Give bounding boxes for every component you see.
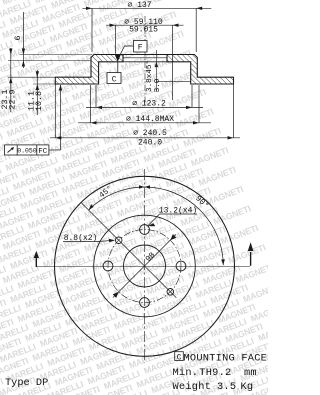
svg-text:MOUNTING FACE: MOUNTING FACE	[184, 352, 268, 364]
svg-text:Weight: Weight	[173, 381, 212, 393]
svg-text:C: C	[112, 76, 117, 85]
datum C (mounting face)	[107, 55, 121, 84]
svg-text:Min.: Min.	[173, 367, 199, 379]
svg-text:8.8(x2): 8.8(x2)	[64, 234, 98, 243]
dim 23.1/22.9 (overall height)	[8, 48, 55, 112]
svg-text:22.9: 22.9	[9, 90, 18, 110]
dim ⌀59.110/59.015	[106, 24, 184, 101]
dim ⌀123.2	[86, 85, 203, 109]
svg-text:240.0: 240.0	[138, 139, 162, 148]
svg-text:13.2(x4): 13.2(x4)	[159, 207, 197, 216]
45deg angle arc	[89, 185, 145, 210]
svg-text:⌀ 240.5: ⌀ 240.5	[133, 129, 167, 138]
svg-text:0.050: 0.050	[17, 147, 37, 154]
svg-text:59.015: 59.015	[129, 26, 158, 35]
dim 11.1/10.8 (friction thickness)	[33, 70, 55, 115]
svg-text:F: F	[138, 44, 143, 53]
svg-text:TH9.2: TH9.2	[199, 367, 231, 379]
8.8(x2) label leader	[63, 239, 115, 242]
bore far-side lines across the gap	[123, 54, 167, 56]
13.2(x4) label leader	[148, 214, 197, 227]
dim ⌀144.8MAX	[78, 85, 211, 125]
runout tolerance frame FC	[5, 85, 63, 156]
svg-text:Type DP: Type DP	[5, 377, 48, 389]
svg-text:C: C	[177, 354, 182, 363]
bolt holes ⌀13.2 x4	[140, 225, 150, 235]
NE-SW diagonal: bolt circle dimension ⌀98	[113, 234, 177, 298]
dim ⌀137	[82, 7, 211, 52]
bore circle ⌀59	[124, 245, 166, 287]
datum F (bore)	[121, 41, 148, 55]
dim ⌀240.5/240.0	[50, 84, 240, 140]
svg-text:mm: mm	[244, 367, 257, 379]
dim 6 (hat plate thickness)	[8, 12, 92, 68]
section view: disc body left half (hatched top-hat profile)	[55, 55, 123, 85]
svg-text:⌀ 144.8MAX: ⌀ 144.8MAX	[126, 115, 174, 124]
svg-text:⌀ 123.2: ⌀ 123.2	[132, 100, 166, 109]
small holes ⌀8.8 x2	[115, 237, 122, 244]
outer circle ⌀240	[55, 176, 235, 356]
drawing group	[5, 7, 254, 363]
horizontal cutting plane line	[36, 266, 250, 268]
svg-text:3.0: 3.0	[154, 78, 162, 92]
cutting plane arrows	[34, 242, 254, 267]
section centerline	[144, 16, 146, 103]
NW-SE diagonal centerline through small holes	[81, 203, 176, 298]
bottom right block	[173, 352, 268, 393]
svg-text:Kg: Kg	[241, 381, 254, 393]
chamfer 3.8x45 / 3.0 leaders	[155, 50, 191, 92]
svg-text:FC: FC	[38, 148, 48, 156]
svg-text:10.8: 10.8	[35, 91, 44, 111]
section view: disc body right half (hatched top-hat profile)	[167, 55, 234, 85]
svg-text:⌀ 137: ⌀ 137	[127, 1, 151, 10]
svg-text:6: 6	[13, 35, 23, 40]
bolt circle ⌀98 (dash-dot)	[108, 230, 181, 303]
svg-text:3.5: 3.5	[217, 381, 236, 393]
vertical centerline	[144, 169, 146, 363]
90deg angle arc	[145, 185, 225, 265]
hat circle ⌀137	[94, 215, 196, 317]
